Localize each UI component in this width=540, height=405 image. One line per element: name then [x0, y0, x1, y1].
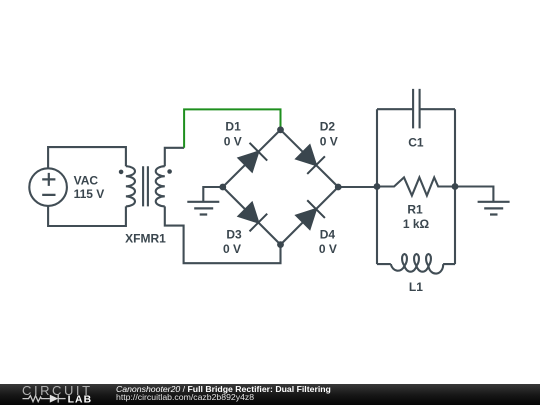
svg-text:D3: D3 [226, 228, 242, 242]
svg-text:1 kΩ: 1 kΩ [403, 217, 430, 231]
svg-text:D4: D4 [320, 227, 336, 241]
svg-text:0 V: 0 V [224, 134, 242, 148]
svg-text:0 V: 0 V [223, 242, 241, 256]
svg-text:XFMR1: XFMR1 [125, 231, 166, 245]
svg-text:VAC: VAC [74, 173, 99, 187]
svg-text:115 V: 115 V [74, 187, 105, 201]
svg-text:0 V: 0 V [319, 242, 337, 256]
svg-text:LAB: LAB [68, 395, 93, 405]
svg-text:R1: R1 [407, 202, 423, 216]
svg-text:C1: C1 [408, 135, 424, 149]
svg-text:L1: L1 [409, 280, 423, 294]
svg-text:0 V: 0 V [320, 134, 338, 148]
svg-text:D1: D1 [225, 120, 241, 134]
svg-text:D2: D2 [320, 120, 336, 134]
